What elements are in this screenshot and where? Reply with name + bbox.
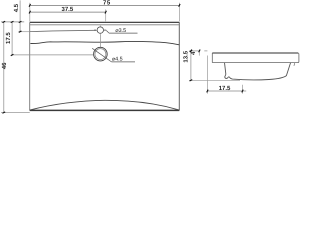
- svg-text:46: 46: [1, 62, 8, 69]
- svg-text:4.5: 4.5: [13, 3, 20, 12]
- svg-text:17.5: 17.5: [5, 32, 12, 44]
- svg-text:13.5: 13.5: [183, 50, 190, 62]
- svg-text:37.5: 37.5: [62, 6, 74, 13]
- svg-text:⌀3.5: ⌀3.5: [115, 28, 126, 34]
- svg-text:⌀4.5: ⌀4.5: [112, 57, 123, 63]
- svg-text:17.5: 17.5: [219, 85, 231, 92]
- svg-text:75: 75: [103, 0, 111, 7]
